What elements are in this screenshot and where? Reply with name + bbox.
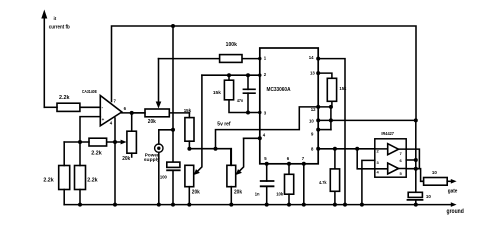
current fb arrow — [41, 10, 47, 108]
svg-text:12: 12 — [311, 107, 316, 112]
junction rail pin14 — [343, 203, 347, 207]
wire pin7 ground — [303, 164, 305, 205]
potentiometer P3 20k — [185, 165, 194, 204]
wire pin6 vcc — [406, 159, 416, 161]
op-amp U1 CA3140E — [100, 96, 122, 126]
wire pin2 net — [202, 74, 260, 76]
wire pin5 — [266, 164, 268, 181]
buffer A triangle — [375, 144, 406, 155]
svg-text:supply: supply — [144, 157, 160, 162]
svg-text:4.7k: 4.7k — [319, 180, 327, 185]
wire pin5 out — [406, 169, 423, 182]
svg-text:gate: gate — [448, 188, 458, 194]
svg-text:20k: 20k — [192, 190, 200, 196]
junction rail r4 — [78, 203, 82, 207]
resistor R3 2.2k — [59, 142, 70, 205]
wire opamp upper input — [80, 106, 100, 108]
svg-text:10: 10 — [432, 170, 437, 175]
capacitor C1 100u — [166, 162, 180, 205]
wire step to IR pin4 — [357, 149, 375, 169]
wire wiper arrow P1 — [107, 140, 127, 145]
junction pin10 supply — [414, 118, 418, 122]
junction pin4/wiper wire — [113, 140, 117, 144]
junction 4.7k top — [333, 147, 337, 151]
resistor R4 2.2k — [75, 142, 86, 205]
junction step top — [355, 147, 359, 151]
junction pin12 15k — [329, 105, 333, 109]
resistor 100k — [220, 55, 242, 63]
svg-text:100k: 100k — [226, 42, 237, 48]
junction pin6 vcc — [414, 158, 418, 162]
junction pin10 x331 — [329, 118, 333, 122]
svg-text:14: 14 — [309, 55, 314, 60]
svg-text:2.2k: 2.2k — [59, 95, 70, 101]
wire pin14 net — [318, 59, 345, 205]
junction pin10 edge — [316, 118, 320, 122]
junction 5vref tap — [214, 147, 218, 151]
wiper P4 — [236, 138, 244, 175]
wire opamp lower input — [80, 117, 100, 142]
wire top rail — [112, 26, 417, 120]
junction rail c4 — [414, 203, 418, 207]
svg-text:15k: 15k — [339, 86, 346, 91]
svg-text:2.2k: 2.2k — [43, 177, 54, 183]
potentiometer P2 20k speed — [132, 109, 189, 117]
wire 5v ref — [216, 107, 331, 149]
junction divider — [78, 140, 82, 144]
potentiometer P4 20k — [227, 149, 236, 205]
junction pin14 — [316, 57, 320, 61]
resistor R7 10k — [285, 174, 294, 204]
svg-text:CA3140E: CA3140E — [82, 89, 98, 95]
junction rail c1 — [171, 203, 175, 207]
junction pin5 supply — [414, 167, 418, 171]
capacitor C4 10u — [407, 192, 424, 204]
junction pin6 — [287, 162, 291, 166]
junction pin12 edge — [316, 105, 320, 109]
junction output node — [130, 111, 134, 115]
svg-text:ground: ground — [447, 209, 465, 215]
wire P4 wiper to pin4 — [244, 137, 260, 139]
svg-text:20k: 20k — [148, 119, 156, 125]
junction rail r7 — [287, 203, 291, 207]
resistor R9 4.7k — [330, 149, 339, 205]
wire fb to R1 — [44, 106, 57, 108]
power supply terminal — [155, 130, 173, 205]
svg-text:10k: 10k — [276, 191, 283, 196]
junction R6 top — [227, 73, 231, 77]
svg-text:IR4427: IR4427 — [381, 131, 394, 136]
svg-text:10: 10 — [426, 194, 431, 199]
wire wiper drop — [156, 59, 162, 109]
junction pin4 — [258, 136, 262, 140]
wire IR pin3 ground — [362, 160, 375, 204]
junction rail c3 — [265, 203, 269, 207]
junction rail r9 — [333, 203, 337, 207]
junction pin5 — [265, 162, 269, 166]
IC U3 IR4427 body — [375, 139, 406, 177]
junction rail psu — [157, 203, 161, 207]
wire supply lower — [415, 120, 417, 192]
wire opamp pin4 to ground — [114, 118, 116, 205]
resistor R8 15k — [327, 78, 336, 107]
potentiometer P1 20k — [127, 131, 136, 157]
svg-text:20k: 20k — [234, 190, 242, 196]
wire gate arrow — [447, 179, 456, 184]
wire output to pot P1 — [131, 113, 133, 131]
wire divider node — [64, 141, 89, 143]
ground rail — [64, 202, 456, 207]
wire opamp output — [122, 112, 145, 114]
junction supply tap — [171, 128, 175, 132]
svg-text:1n: 1n — [255, 191, 260, 196]
svg-text:10: 10 — [309, 119, 314, 124]
junction pin9 — [316, 128, 320, 132]
junction C2 bottom — [246, 111, 250, 115]
resistor R6 15k — [224, 75, 259, 112]
resistor R1 2.2k — [57, 103, 80, 111]
svg-text:2.2k: 2.2k — [91, 151, 102, 157]
junction rail p4 — [229, 203, 233, 207]
svg-text:MC33060A: MC33060A — [267, 87, 291, 93]
svg-text:15k: 15k — [213, 90, 221, 95]
capacitor C2 47n — [243, 75, 256, 112]
junction C2 top — [246, 73, 250, 77]
wire 100k feedback — [159, 58, 260, 60]
capacitor C3 1n — [260, 181, 275, 205]
junction pin1 — [258, 57, 261, 60]
junction pin13 — [316, 71, 320, 75]
svg-text:15k: 15k — [184, 108, 192, 113]
junction rail p3 — [187, 203, 191, 207]
wiper P3 — [194, 75, 202, 175]
junction pin7 — [302, 162, 306, 166]
svg-text:13: 13 — [310, 70, 315, 75]
svg-text:100: 100 — [160, 175, 167, 180]
junction top rail / supply — [171, 24, 175, 28]
junction pin8 edge — [316, 147, 320, 151]
svg-text:current fb: current fb — [49, 25, 70, 31]
supply vertical — [172, 26, 174, 162]
svg-text:+: + — [102, 117, 105, 122]
wire pin10 net — [318, 119, 416, 121]
IC U2 MC33060A body — [260, 48, 318, 164]
wire pin13 net — [318, 73, 332, 78]
svg-text:5v ref: 5v ref — [217, 121, 231, 127]
junction rail pin4line — [113, 203, 117, 207]
wire pin6 — [288, 164, 290, 175]
resistor R2 2.2k — [89, 138, 107, 146]
svg-text:2.2k: 2.2k — [87, 177, 98, 183]
wire pin7 out — [406, 149, 419, 169]
resistor R10 10 — [424, 178, 448, 186]
junction pin3 — [258, 111, 261, 114]
resistor R5 15k — [185, 113, 194, 149]
wire x331 vertical — [330, 107, 332, 130]
wire 5vref lower bus — [189, 149, 230, 166]
buffer B triangle — [375, 163, 406, 174]
svg-text:47n: 47n — [237, 98, 243, 103]
wire pin9 — [318, 129, 331, 131]
junction rail ir pin3 — [360, 203, 364, 207]
junction rail pin7 — [302, 203, 306, 207]
junction pin2 — [258, 74, 261, 77]
wire pin8 net — [318, 148, 375, 150]
svg-text:20k: 20k — [122, 156, 130, 162]
junction R5 bottom — [187, 147, 191, 151]
